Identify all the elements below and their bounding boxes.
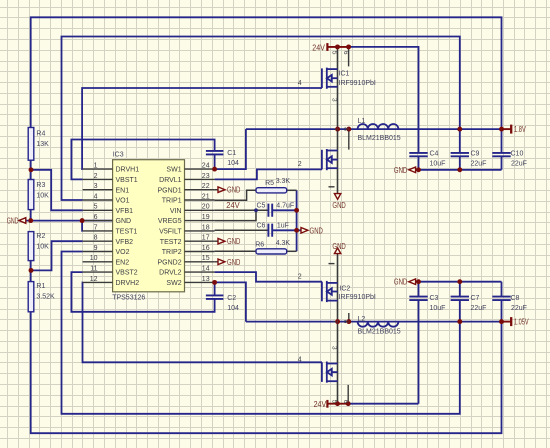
svg-text:6: 6 — [342, 400, 349, 404]
svg-text:IC1: IC1 — [339, 71, 350, 78]
svg-text:GND: GND — [310, 226, 324, 235]
svg-text:13: 13 — [202, 276, 210, 283]
svg-text:5: 5 — [94, 204, 98, 211]
svg-text:24V: 24V — [314, 400, 327, 409]
svg-text:21: 21 — [202, 193, 210, 200]
svg-text:TEST2: TEST2 — [160, 239, 182, 246]
svg-text:R4: R4 — [36, 130, 45, 137]
svg-text:24V: 24V — [312, 43, 325, 52]
svg-text:4: 4 — [94, 193, 98, 200]
svg-text:VBST1: VBST1 — [116, 177, 138, 184]
svg-text:2: 2 — [298, 273, 302, 280]
svg-text:6: 6 — [342, 51, 349, 55]
svg-text:11: 11 — [90, 266, 97, 273]
svg-text:15: 15 — [202, 255, 210, 262]
svg-text:IRF9910PbI: IRF9910PbI — [339, 80, 376, 87]
svg-text:GND: GND — [227, 258, 241, 267]
svg-text:8: 8 — [342, 320, 349, 324]
svg-text:L1: L1 — [358, 118, 366, 125]
svg-text:6: 6 — [94, 214, 98, 221]
svg-text:R5: R5 — [265, 180, 274, 187]
svg-text:VIN: VIN — [170, 208, 182, 215]
svg-text:BLM21BB015: BLM21BB015 — [358, 329, 401, 336]
svg-text:C10: C10 — [511, 150, 524, 157]
svg-text:12: 12 — [90, 276, 98, 283]
svg-text:10K: 10K — [36, 193, 49, 200]
svg-text:8: 8 — [342, 127, 349, 131]
svg-text:R2: R2 — [36, 233, 45, 240]
svg-text:R1: R1 — [36, 283, 45, 290]
svg-text:2: 2 — [94, 173, 98, 180]
svg-text:22uF: 22uF — [471, 305, 487, 312]
svg-text:104: 104 — [227, 160, 239, 167]
svg-text:3.52K: 3.52K — [36, 294, 55, 301]
svg-text:GND: GND — [227, 186, 241, 195]
svg-text:22uF: 22uF — [511, 305, 527, 312]
svg-text:C3: C3 — [430, 295, 439, 302]
svg-text:23: 23 — [202, 173, 210, 180]
svg-text:VO1: VO1 — [116, 198, 130, 205]
svg-text:TPS53126: TPS53126 — [112, 295, 145, 302]
svg-text:C7: C7 — [471, 295, 480, 302]
svg-text:104: 104 — [227, 305, 239, 312]
svg-text:22: 22 — [202, 183, 210, 190]
svg-text:TRIP2: TRIP2 — [162, 249, 182, 256]
svg-text:GND: GND — [394, 166, 408, 175]
svg-text:SW1: SW1 — [166, 167, 181, 174]
svg-text:3: 3 — [331, 346, 338, 350]
svg-text:1: 1 — [94, 163, 98, 170]
svg-text:20: 20 — [202, 204, 210, 211]
svg-text:C1: C1 — [227, 150, 236, 157]
svg-text:16: 16 — [202, 245, 210, 252]
svg-text:4.7uF: 4.7uF — [276, 203, 294, 210]
svg-text:2: 2 — [298, 161, 302, 168]
svg-text:TRIP1: TRIP1 — [162, 198, 182, 205]
svg-text:C9: C9 — [471, 150, 480, 157]
svg-text:DRVL2: DRVL2 — [159, 270, 182, 277]
svg-text:PGND1: PGND1 — [157, 187, 181, 194]
svg-text:14: 14 — [202, 266, 210, 273]
svg-text:IRF9910PbI: IRF9910PbI — [339, 294, 376, 301]
svg-text:7: 7 — [94, 224, 98, 231]
svg-text:7: 7 — [331, 320, 338, 324]
svg-text:24: 24 — [202, 163, 210, 170]
svg-text:19: 19 — [202, 214, 210, 221]
svg-text:GND: GND — [332, 201, 346, 210]
svg-text:C6: C6 — [257, 223, 266, 230]
svg-text:VFB2: VFB2 — [116, 239, 134, 246]
svg-text:IC2: IC2 — [339, 285, 350, 292]
svg-text:3: 3 — [94, 183, 98, 190]
svg-text:C4: C4 — [430, 150, 439, 157]
svg-text:DRVH1: DRVH1 — [116, 167, 140, 174]
svg-text:9: 9 — [94, 245, 98, 252]
svg-text:10uF: 10uF — [430, 160, 446, 167]
svg-text:IC3: IC3 — [113, 152, 124, 159]
svg-text:10uF: 10uF — [430, 305, 446, 312]
svg-text:C2: C2 — [227, 295, 236, 302]
svg-text:22uF: 22uF — [471, 160, 487, 167]
svg-text:24V: 24V — [226, 201, 240, 210]
svg-text:L2: L2 — [358, 316, 366, 323]
svg-text:V5FILT: V5FILT — [159, 229, 182, 236]
svg-text:1uF: 1uF — [277, 223, 289, 230]
svg-text:BLM21BB015: BLM21BB015 — [358, 135, 401, 142]
svg-text:13K: 13K — [36, 141, 49, 148]
svg-text:R3: R3 — [36, 182, 45, 189]
svg-text:1.05V: 1.05V — [514, 318, 529, 327]
svg-text:5: 5 — [331, 51, 338, 55]
svg-text:TEST1: TEST1 — [116, 229, 138, 236]
svg-text:4.3K: 4.3K — [276, 240, 291, 247]
svg-text:GND: GND — [332, 242, 346, 251]
svg-text:C5: C5 — [257, 203, 266, 210]
svg-text:GND: GND — [394, 278, 408, 287]
svg-text:PGND2: PGND2 — [157, 259, 181, 266]
svg-text:VBST2: VBST2 — [116, 270, 138, 277]
svg-text:DRVL1: DRVL1 — [159, 177, 182, 184]
svg-text:SW2: SW2 — [166, 280, 181, 287]
svg-text:17: 17 — [202, 235, 210, 242]
svg-text:VFB1: VFB1 — [116, 208, 134, 215]
svg-text:DRVH2: DRVH2 — [116, 280, 140, 287]
svg-text:R6: R6 — [255, 242, 264, 249]
svg-text:22uF: 22uF — [511, 160, 527, 167]
svg-text:8: 8 — [94, 235, 98, 242]
svg-text:GND: GND — [116, 218, 132, 225]
svg-text:5: 5 — [331, 400, 338, 404]
svg-text:1.8V: 1.8V — [514, 125, 526, 134]
svg-text:GND: GND — [227, 237, 241, 246]
svg-text:EN1: EN1 — [116, 187, 130, 194]
svg-text:4: 4 — [298, 357, 302, 364]
svg-text:C8: C8 — [511, 295, 520, 302]
svg-text:3: 3 — [330, 98, 337, 102]
svg-text:7: 7 — [331, 127, 338, 131]
svg-text:VO2: VO2 — [116, 249, 130, 256]
svg-text:EN2: EN2 — [116, 259, 130, 266]
svg-text:10: 10 — [90, 255, 98, 262]
svg-text:GND: GND — [7, 217, 19, 226]
svg-text:18: 18 — [202, 224, 210, 231]
svg-text:3.3K: 3.3K — [276, 178, 291, 185]
svg-text:VREG5: VREG5 — [158, 218, 182, 225]
svg-text:4: 4 — [298, 80, 302, 87]
svg-text:10K: 10K — [36, 244, 49, 251]
